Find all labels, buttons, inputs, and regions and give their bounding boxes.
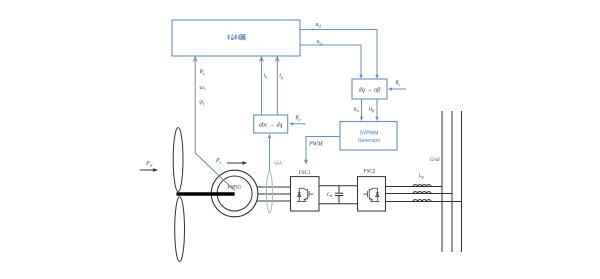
- svg-text:θe: θe: [396, 81, 401, 88]
- wind turbine blade lower: [175, 197, 185, 262]
- svg-text:PWM: PWM: [308, 142, 324, 148]
- converter FSC2 box: [358, 177, 386, 211]
- IGBT Q1 with diode in FSC1 (mirror of Q2): [297, 188, 313, 201]
- inductor L_g c: [413, 200, 431, 202]
- generator PMSG inner circle: [217, 176, 252, 211]
- svg-text:uβ: uβ: [369, 107, 375, 114]
- generator PMSG outer circle: [211, 170, 258, 217]
- grid bus line 1: [441, 111, 443, 252]
- svg-text:Ps: Ps: [215, 158, 222, 165]
- svg-text:iq: iq: [279, 73, 284, 80]
- svg-text:PMSG: PMSG: [227, 186, 242, 191]
- arrowhead currents: [268, 134, 271, 138]
- current sensor ellipse: [267, 171, 273, 213]
- wire u-alpha: [361, 99, 363, 120]
- svg-text:ωr: ωr: [200, 85, 206, 92]
- svg-text:uα: uα: [354, 107, 360, 114]
- svg-text:id: id: [264, 73, 269, 80]
- svg-text:Grid: Grid: [430, 157, 440, 163]
- svg-text:uq: uq: [317, 39, 323, 46]
- wire u-beta: [376, 99, 378, 120]
- arrowhead i_d open: [260, 57, 264, 62]
- inductor L_g a: [413, 185, 431, 187]
- wire theta-e into abc-dq box: [291, 123, 306, 125]
- arrowhead i_q open: [275, 57, 279, 62]
- transform block dq to alpha-beta: [352, 79, 387, 99]
- SVPWM generator block: [340, 122, 397, 151]
- converter FSC1 box: [291, 177, 320, 211]
- svg-text:Lg: Lg: [418, 174, 424, 179]
- wire PWM from SVPWM to FSC1: [306, 137, 340, 163]
- three-phase wire FSC2-grid c: [386, 201, 462, 203]
- arrowhead theta-e abc: [289, 122, 293, 125]
- svg-text:ψf: ψf: [199, 100, 205, 107]
- controller label 控制器: [228, 34, 246, 40]
- capacitor C_d: [335, 186, 343, 204]
- transform block abc to dq: [254, 115, 288, 133]
- grid bus line 3: [461, 111, 463, 252]
- svg-text:SVPWM: SVPWM: [360, 131, 379, 137]
- wire rotor feedback to controller: [195, 57, 234, 191]
- svg-text:θe: θe: [296, 116, 301, 123]
- arrowhead feedback open: [193, 57, 197, 62]
- svg-text:FSC2: FSC2: [364, 168, 376, 174]
- dc link top wire: [319, 185, 358, 187]
- wire sensed currents to abc-dq: [269, 135, 271, 171]
- svg-text:iaibic: iaibic: [274, 160, 283, 166]
- arrowhead ud: [375, 75, 378, 79]
- three-phase wire FSC2-grid b: [386, 193, 453, 195]
- svg-text:ud: ud: [316, 22, 322, 29]
- inductor L_g b: [413, 192, 431, 194]
- IGBT Q2 with diode in FSC2: [363, 188, 379, 201]
- arrowhead theta-e: [388, 87, 392, 90]
- turbine shaft: [177, 192, 235, 195]
- arrow P_w: [140, 169, 155, 171]
- svg-text:Generator: Generator: [358, 138, 381, 144]
- svg-text:θe: θe: [200, 70, 205, 77]
- svg-text:dq → αβ: dq → αβ: [359, 87, 382, 94]
- dc link bottom wire: [319, 203, 358, 205]
- wire ud from controller to dq-ab box: [300, 30, 377, 78]
- arrowhead PWM: [304, 160, 308, 165]
- wire i_q to controller: [276, 57, 278, 115]
- svg-text:FSC1: FSC1: [299, 170, 311, 176]
- arrowhead u-beta: [375, 117, 378, 121]
- svg-text:Pw: Pw: [145, 161, 153, 168]
- arrow P_s: [227, 162, 245, 164]
- three-phase wire PMSG-FSC1 a: [257, 186, 291, 188]
- grid bus line 2: [451, 111, 453, 252]
- three-phase wire PMSG-FSC1 c: [257, 200, 291, 202]
- wire uq from controller to dq-ab box: [300, 45, 361, 78]
- arrowhead u-alpha: [360, 117, 363, 121]
- three-phase wire FSC2-grid a: [386, 186, 443, 188]
- wind turbine blade upper: [173, 128, 183, 192]
- svg-text:abc → dq: abc → dq: [259, 123, 283, 129]
- controller U-CTRL box: [172, 20, 300, 56]
- arrowhead uq: [359, 75, 362, 79]
- svg-text:Cd: Cd: [327, 193, 332, 198]
- wire i_d to controller: [261, 57, 263, 115]
- wire theta-e into dq-ab box: [390, 88, 407, 90]
- three-phase wire PMSG-FSC1 b: [258, 193, 291, 195]
